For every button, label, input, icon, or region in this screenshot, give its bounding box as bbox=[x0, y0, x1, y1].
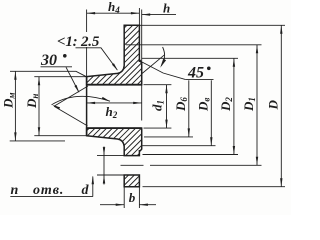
Dm extension bottom bbox=[10, 140, 65, 142]
flange body outline upper half bbox=[87, 25, 142, 84]
b arrow right (pointing left) bbox=[139, 204, 148, 206]
bevel arc arrow left bbox=[52, 105, 60, 110]
30deg leader bbox=[66, 67, 79, 92]
b extension left bbox=[123, 187, 125, 208]
chamfer angle arc arrow bbox=[160, 59, 166, 68]
D1 arrow bottom bbox=[256, 157, 258, 166]
d arrow upper (pointing down) bbox=[103, 147, 105, 156]
flange body outline lower half bbox=[87, 128, 142, 156]
note leader arrow bbox=[92, 176, 94, 185]
d arrow lower (pointing up) bbox=[103, 175, 105, 184]
svg-text:h4: h4 bbox=[108, 0, 120, 15]
svg-text:d1: d1 bbox=[150, 100, 166, 111]
Dn extension top bbox=[34, 76, 86, 78]
h2 extension segment (raised face plane) bbox=[141, 85, 143, 121]
dimension line h tail bbox=[142, 14, 176, 16]
Dn extension bottom bbox=[34, 135, 86, 137]
D1 extension bottom (bolt hole axis) bbox=[150, 164, 262, 166]
dimension line h2 bbox=[87, 102, 142, 104]
h1 extension line right (disc back face) bbox=[138, 8, 140, 25]
h2 arrow right bbox=[133, 102, 142, 104]
Dm arrow top bbox=[14, 71, 16, 80]
svg-text:nотв.d: nотв.d bbox=[11, 183, 90, 198]
dimension line Dm bbox=[14, 71, 16, 141]
svg-text:D: D bbox=[266, 100, 281, 111]
dimension line D1 bbox=[256, 45, 258, 166]
D extension top bbox=[127, 24, 285, 26]
D1 arrow top bbox=[256, 45, 258, 54]
bore lower edge bbox=[87, 127, 142, 129]
svg-text:D1: D1 bbox=[241, 97, 257, 112]
Dv extension bottom bbox=[143, 145, 216, 147]
D1 extension top (through disc) bbox=[126, 44, 262, 46]
D6 extension bottom bbox=[144, 136, 193, 138]
bore upper edge bbox=[87, 84, 142, 86]
dimension line h1 bbox=[87, 12, 140, 14]
d extension top (hole upper edge) bbox=[97, 155, 127, 157]
Dm arrow bottom bbox=[14, 132, 16, 141]
weld end face edge bbox=[86, 77, 88, 136]
45deg note underline bbox=[185, 78, 213, 80]
dimension line Dn bbox=[38, 77, 40, 136]
30deg note underline bbox=[41, 66, 73, 68]
svg-text:D2: D2 bbox=[218, 97, 234, 112]
bolt hole centerline bbox=[121, 164, 144, 166]
chamfer angle arc bbox=[161, 47, 164, 66]
D arrow top bbox=[280, 25, 282, 34]
chamfer angle second construction line bbox=[142, 55, 165, 74]
svg-text:Dв: Dв bbox=[196, 98, 212, 112]
note leader vertical bbox=[92, 177, 94, 197]
dimension line d (outside arrows) bbox=[103, 147, 105, 185]
taper leader line bbox=[76, 48, 118, 70]
raised face chamfer edge bbox=[140, 60, 142, 62]
svg-text:h: h bbox=[163, 1, 170, 16]
D arrow bottom bbox=[280, 178, 282, 187]
dimension line Dv bbox=[210, 80, 212, 145]
Dn arrow bottom bbox=[38, 127, 40, 136]
dimension D2 (sealing face) bbox=[142, 57, 238, 59]
h arrow (outside, pointing left) bbox=[142, 13, 151, 15]
30deg leader arrow bbox=[74, 85, 79, 93]
dimension line D bbox=[280, 25, 282, 186]
svg-text:45: 45 bbox=[187, 65, 204, 82]
b dimension line left (outside) bbox=[100, 204, 124, 206]
b extension right bbox=[138, 187, 140, 208]
bevel arc arrow right bbox=[102, 97, 110, 101]
h extension line (raised face) bbox=[141, 10, 143, 62]
bevel angle arc bbox=[52, 96, 111, 105]
h1 arrow left bbox=[87, 12, 96, 14]
h2 arrow left bbox=[87, 102, 96, 104]
svg-text:b: b bbox=[129, 190, 136, 205]
bevel construction line lower bbox=[54, 106, 88, 126]
svg-text:D6: D6 bbox=[173, 97, 189, 112]
taper leader arrow bbox=[112, 63, 118, 71]
Dn arrow top bbox=[38, 77, 40, 86]
b dimension line right (outside) bbox=[139, 204, 156, 206]
note underline / leader shelf bbox=[10, 196, 93, 198]
Dv arrow bottom bbox=[210, 137, 212, 146]
D6 arrow bottom bbox=[188, 128, 190, 137]
D extension bottom bbox=[143, 186, 286, 188]
svg-text:Dм: Dм bbox=[0, 92, 16, 109]
svg-text:Dн: Dн bbox=[24, 94, 40, 109]
Dm extension top bbox=[10, 71, 87, 77]
taper note background bbox=[56, 32, 104, 47]
d extension bottom (hole lower edge) bbox=[97, 174, 127, 176]
chamfer line extended with leader to 45deg note bbox=[141, 62, 185, 80]
bevel construction line upper bbox=[54, 86, 88, 106]
h1 extension line left (weld end) bbox=[86, 10, 88, 77]
svg-text:h2: h2 bbox=[106, 104, 118, 120]
dimension line D6 bbox=[188, 80, 190, 137]
b arrow left (pointing right) bbox=[116, 204, 125, 206]
dimension d1 (bore diameter) bbox=[144, 84, 172, 86]
flange rim outline below bolt hole bbox=[124, 175, 139, 187]
h1 arrow right bbox=[131, 12, 140, 14]
